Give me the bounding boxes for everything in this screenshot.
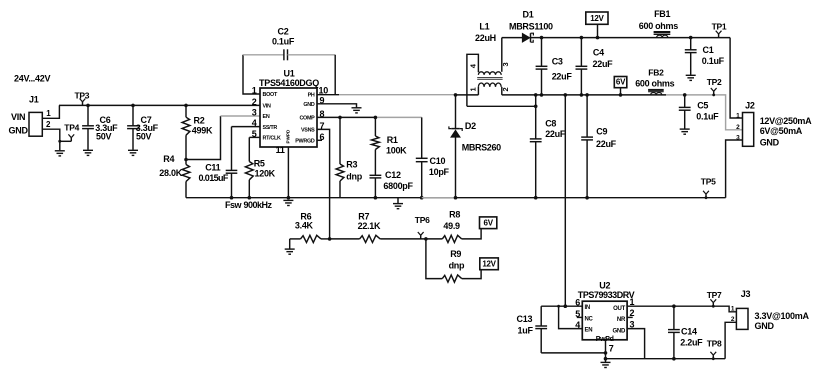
svg-text:R3: R3 <box>346 160 357 170</box>
svg-text:D1: D1 <box>523 10 534 20</box>
L1 pin label 3 <box>501 62 510 66</box>
U1 pin number 11 <box>276 145 285 155</box>
wire U2 EN tie <box>559 306 583 328</box>
svg-text:11: 11 <box>276 145 285 155</box>
diode D2 <box>449 95 501 198</box>
svg-text:D2: D2 <box>465 121 476 131</box>
svg-text:2: 2 <box>252 97 257 107</box>
capacitor C7 <box>127 105 159 149</box>
wire 12V to J2 pin1 <box>730 38 742 118</box>
svg-text:J1: J1 <box>29 95 39 105</box>
svg-text:PwPd: PwPd <box>596 336 614 343</box>
svg-text:FB2: FB2 <box>648 67 664 77</box>
svg-text:22.1K: 22.1K <box>358 221 381 231</box>
wire input 24V..42V label <box>14 74 50 84</box>
U1 pin name SS/TR <box>263 125 278 131</box>
node C3 top junction <box>540 36 544 40</box>
capacitor C12 <box>370 150 414 198</box>
U2 pin name GND <box>613 328 626 334</box>
svg-text:RT/CLK: RT/CLK <box>263 136 281 142</box>
ferrite bead FB2 <box>635 67 674 95</box>
node C8 pin4-line junction <box>534 105 538 109</box>
wire LDO ground rail <box>606 358 726 360</box>
resistor R7 <box>330 212 443 243</box>
resistor R8 <box>442 210 481 243</box>
U2 pin name NR <box>617 317 626 323</box>
svg-text:GND: GND <box>613 328 626 334</box>
J1 labels VIN GND <box>9 112 29 136</box>
svg-text:12V: 12V <box>482 260 496 269</box>
svg-text:24V...42V: 24V...42V <box>14 74 50 84</box>
svg-text:TPS79933DRV: TPS79933DRV <box>578 290 635 300</box>
svg-text:TPS54160DGQ: TPS54160DGQ <box>259 78 319 88</box>
wire input rail <box>59 104 260 106</box>
svg-text:0.015uF: 0.015uF <box>199 173 229 183</box>
svg-text:C11: C11 <box>205 162 220 172</box>
svg-text:22uH: 22uH <box>475 33 496 43</box>
wire PH black segment <box>456 94 479 96</box>
inductor L1 pin4 loop <box>467 54 479 106</box>
svg-text:J2: J2 <box>745 101 755 111</box>
power flag 6V feedback <box>480 217 497 229</box>
J3 labels <box>755 311 810 331</box>
svg-text:50V: 50V <box>96 131 111 141</box>
U2 refdes <box>578 281 635 300</box>
node D2 ground junction <box>454 196 458 200</box>
svg-text:dnp: dnp <box>346 172 362 182</box>
node C8 ground junction <box>534 196 538 200</box>
svg-text:TP7: TP7 <box>707 290 722 300</box>
svg-text:VSNS: VSNS <box>301 127 315 133</box>
svg-text:2: 2 <box>501 87 510 91</box>
wire J1 pin1 to input rail <box>42 105 59 118</box>
node U2 ground junction <box>604 357 608 361</box>
svg-text:900kHz: 900kHz <box>244 200 273 210</box>
resistor R5 <box>245 137 275 197</box>
node pin11 ground junction <box>287 196 291 200</box>
svg-text:22uF: 22uF <box>596 139 617 149</box>
U2 pin number 5 <box>575 309 580 319</box>
power flag 6V mid <box>614 77 627 97</box>
ground C1 <box>686 75 696 80</box>
U1 pin number 5 <box>252 129 257 139</box>
svg-text:BOOT: BOOT <box>263 92 278 98</box>
U1 pin number 10 <box>319 86 329 96</box>
ferrite bead FB1 <box>639 9 678 37</box>
svg-text:C13: C13 <box>517 314 533 324</box>
U1 pin name PH <box>308 93 315 99</box>
svg-text:TP5: TP5 <box>701 176 716 186</box>
U1 pin name PWRGD <box>295 138 315 144</box>
resistor R9 <box>426 239 481 282</box>
U1 pin name VSNS <box>301 127 315 133</box>
svg-text:GND: GND <box>760 137 780 147</box>
node C14 bottom junction <box>672 357 676 361</box>
svg-text:R2: R2 <box>194 115 205 125</box>
svg-text:50V: 50V <box>136 131 151 141</box>
node R2-R4-EN junction <box>184 158 188 162</box>
L1 pin label 2 <box>501 87 510 91</box>
svg-text:PWPD: PWPD <box>286 129 291 143</box>
U1 pin number 9 <box>320 95 325 105</box>
J2 pin 1 <box>736 112 740 119</box>
svg-text:COMP: COMP <box>299 115 315 121</box>
ground J1 <box>55 151 65 156</box>
node D2 PH junction <box>454 93 458 97</box>
inductor L1 core <box>477 78 502 80</box>
svg-text:GND: GND <box>9 126 29 136</box>
resistor R6 <box>290 212 330 243</box>
svg-text:100K: 100K <box>386 146 407 156</box>
node C5 top junction <box>683 93 687 97</box>
U1 pin number 7 <box>320 121 325 131</box>
svg-text:C10: C10 <box>430 156 446 166</box>
U2 pin number 1 <box>630 297 635 307</box>
wire J1 pin2 to ground <box>42 129 60 150</box>
capacitor C10 <box>416 117 450 197</box>
wire D1 anode lead <box>502 37 523 39</box>
node VSNS feedback junction <box>328 237 332 241</box>
wire J2 pin3 to ground rail <box>726 140 743 198</box>
connector J3 <box>736 289 750 329</box>
connector J1 <box>29 95 42 137</box>
svg-text:49.9: 49.9 <box>443 221 460 231</box>
svg-text:28.0K: 28.0K <box>159 168 182 178</box>
svg-text:IN: IN <box>585 305 590 311</box>
J2 pin 3 <box>736 135 740 142</box>
svg-text:C1: C1 <box>703 45 714 55</box>
svg-text:FB1: FB1 <box>654 9 670 19</box>
testpoint TP7 <box>707 290 722 308</box>
svg-text:C12: C12 <box>385 170 401 180</box>
resistor R1 <box>372 117 408 155</box>
wire PWRGD stub <box>317 139 322 141</box>
svg-text:Fsw: Fsw <box>225 200 243 210</box>
svg-text:C8: C8 <box>545 119 556 129</box>
svg-text:4: 4 <box>252 118 257 128</box>
svg-text:C2: C2 <box>278 26 289 36</box>
inductor L1 pin3 lead <box>501 38 503 72</box>
wire 6V rail gray segment <box>666 95 743 130</box>
node C8 top junction <box>534 93 538 97</box>
L1 pin label 1 <box>469 87 478 91</box>
U1 refdes <box>259 68 319 87</box>
capacitor C4 <box>576 38 614 95</box>
U2 pin number 7 <box>609 344 614 354</box>
wire U2 IN line <box>541 305 582 307</box>
U1 pin name RT/CLK <box>263 136 281 142</box>
svg-text:22uF: 22uF <box>545 129 566 139</box>
node U2 EN tie junction <box>557 305 560 308</box>
svg-text:499K: 499K <box>192 125 213 135</box>
ground U1 pin9 <box>352 108 362 113</box>
svg-text:EN: EN <box>263 114 270 120</box>
L1 pin label 4 <box>469 63 478 68</box>
svg-text:PWRGD: PWRGD <box>295 138 315 144</box>
label Fsw <box>225 200 273 210</box>
svg-text:6V: 6V <box>484 218 494 227</box>
power flag 12V top <box>586 12 608 39</box>
svg-text:SS/TR: SS/TR <box>263 125 278 131</box>
U1 pin number 6 <box>320 132 325 142</box>
svg-text:12V@250mA: 12V@250mA <box>760 116 812 126</box>
wire ground rail <box>186 197 726 199</box>
node C9 ground junction <box>585 196 589 200</box>
wire 6V rail <box>502 94 666 96</box>
J2 pin 2 <box>736 124 740 131</box>
testpoint TP1 <box>712 22 727 38</box>
testpoint TP4 <box>58 122 79 142</box>
U1 pin name VIN <box>263 103 272 109</box>
wire U2 NR stub <box>627 316 633 318</box>
J1 pin 1 <box>46 109 51 118</box>
testpoint TP8 <box>707 338 722 360</box>
node U2 IN junction <box>564 304 568 308</box>
svg-text:3: 3 <box>501 62 510 66</box>
node C6 junction <box>86 104 90 108</box>
node C4 bottom junction <box>580 93 584 97</box>
svg-text:TP3: TP3 <box>75 90 90 100</box>
node R3 top junction <box>338 116 342 120</box>
J2 labels <box>760 116 812 147</box>
svg-text:R7: R7 <box>358 212 369 222</box>
wire EN gray segment <box>221 115 261 117</box>
svg-text:120K: 120K <box>255 168 276 178</box>
wire OUT line <box>627 306 736 312</box>
capacitor C11 <box>199 127 261 198</box>
svg-text:10pF: 10pF <box>429 167 450 177</box>
J1 pin 2 <box>46 120 51 129</box>
svg-text:C9: C9 <box>596 126 607 136</box>
capacitor C6 <box>82 105 118 149</box>
svg-text:3.3V@100mA: 3.3V@100mA <box>755 311 810 321</box>
wire ground rail gray segment <box>422 197 456 199</box>
U2 pin name EN <box>585 328 593 334</box>
svg-text:6V@50mA: 6V@50mA <box>760 126 803 136</box>
svg-text:MBRS260: MBRS260 <box>462 142 501 152</box>
capacitor C5 <box>679 95 719 129</box>
testpoint TP2 <box>707 77 722 96</box>
inductor L1 pin1 lead <box>477 87 479 95</box>
wire U1 pin11 <box>287 147 289 198</box>
wire COMP <box>317 116 375 118</box>
ground C7 <box>128 150 138 155</box>
wire U2 pin7 <box>605 340 607 359</box>
svg-text:R1: R1 <box>387 135 398 145</box>
svg-text:L1: L1 <box>479 21 489 31</box>
svg-text:TP1: TP1 <box>712 22 727 32</box>
svg-text:R9: R9 <box>450 249 461 259</box>
svg-text:3.4K: 3.4K <box>295 221 314 231</box>
J3 pin 1 <box>731 305 735 312</box>
ground U1 pin11 <box>283 200 293 205</box>
op-amp U1 box <box>260 88 317 147</box>
wire VSNS <box>317 129 330 239</box>
node R5 ground junction <box>248 196 252 200</box>
U2 pin number 6 <box>575 298 580 308</box>
svg-text:22uF: 22uF <box>593 59 614 69</box>
node C11 ground junction <box>230 196 234 200</box>
U2 pin number 3 <box>630 319 635 329</box>
svg-text:TP4: TP4 <box>64 122 79 132</box>
node C14 top junction <box>672 304 676 308</box>
U2 pin number 2 <box>630 308 635 318</box>
node R2 junction <box>184 104 188 108</box>
svg-text:OUT: OUT <box>613 306 625 312</box>
svg-text:C3: C3 <box>552 57 563 67</box>
J3 pin 2 <box>731 316 735 323</box>
U1 pin name COMP <box>299 115 315 121</box>
svg-text:600 ohms: 600 ohms <box>635 79 674 89</box>
wire EN link <box>186 116 221 160</box>
svg-text:TP2: TP2 <box>707 77 722 87</box>
U2 pin name NC <box>585 316 594 322</box>
svg-text:2.2uF: 2.2uF <box>680 337 703 347</box>
wire PH stub <box>317 94 339 96</box>
L1 refdes <box>475 21 496 43</box>
node R1 top junction <box>374 116 378 120</box>
testpoint TP3 <box>75 90 90 105</box>
resistor R4 <box>159 154 190 198</box>
U2 pin name PwPd <box>596 336 614 343</box>
svg-text:1uF: 1uF <box>518 326 534 336</box>
wire U2 NC stub <box>577 316 583 318</box>
U1 pin name GND <box>303 102 315 108</box>
node C9 top junction <box>585 93 589 97</box>
svg-text:600 ohms: 600 ohms <box>639 21 678 31</box>
svg-text:VIN: VIN <box>11 112 25 122</box>
connector J2 <box>743 101 755 147</box>
svg-text:TP8: TP8 <box>707 338 722 348</box>
U1 pin number 3 <box>252 108 257 118</box>
inductor L1 pin2 lead <box>501 87 503 95</box>
svg-text:C5: C5 <box>697 101 708 111</box>
U1 pin name BOOT <box>263 92 278 98</box>
node pin7 link junction <box>604 351 608 355</box>
wire C13 bottom link <box>541 352 605 354</box>
node U2 feed junction <box>564 93 568 97</box>
ground C5 <box>680 129 690 134</box>
svg-text:0.1uF: 0.1uF <box>702 56 725 66</box>
node C1 top junction <box>689 36 693 40</box>
wire C2 right vertical <box>334 55 336 95</box>
capacitor C13 <box>517 306 548 353</box>
svg-text:MBRS1100: MBRS1100 <box>509 22 553 32</box>
svg-text:TP6: TP6 <box>415 215 430 225</box>
svg-text:12V: 12V <box>590 14 604 23</box>
capacitor C1 <box>685 38 725 75</box>
diode D1 <box>509 10 553 43</box>
capacitor C2 <box>243 26 335 60</box>
svg-text:R5: R5 <box>254 159 265 169</box>
U1 pin number 4 <box>252 118 257 128</box>
svg-text:C14: C14 <box>681 327 697 337</box>
wire L1 pin4 line to C8 <box>467 105 536 107</box>
U2 pin number 4 <box>575 320 580 330</box>
svg-text:3: 3 <box>252 108 257 118</box>
wire 12V rail <box>531 37 731 39</box>
U1 pin name PWPD vertical <box>286 129 291 143</box>
svg-text:22uF: 22uF <box>552 72 573 82</box>
testpoint TP5 <box>701 176 716 199</box>
node C7 junction <box>131 104 135 108</box>
capacitor C9 <box>581 95 616 198</box>
svg-text:dnp: dnp <box>449 260 465 270</box>
svg-text:6V: 6V <box>616 78 626 87</box>
svg-text:NC: NC <box>585 316 594 322</box>
U1 pin number 1 <box>252 86 257 96</box>
svg-text:6800pF: 6800pF <box>383 181 413 191</box>
svg-text:NR: NR <box>617 317 626 323</box>
capacitor C14 <box>668 306 703 359</box>
node R9 branch junction <box>424 237 428 241</box>
U1 pin number 8 <box>320 109 325 119</box>
svg-text:0.1uF: 0.1uF <box>696 112 719 122</box>
svg-text:VIN: VIN <box>263 103 272 109</box>
svg-text:J3: J3 <box>741 289 751 299</box>
op-amp U2 box <box>582 301 627 340</box>
U2 pin name OUT <box>613 306 625 312</box>
svg-text:R8: R8 <box>449 210 460 220</box>
ground C6 <box>83 150 93 155</box>
resistor R2 <box>182 105 213 159</box>
wire J3 pin2 to ground <box>725 322 736 358</box>
U1 pin name EN <box>263 114 270 120</box>
U1 pin number 2 <box>252 97 257 107</box>
node C4 top junction <box>580 36 584 40</box>
node C12 ground junction <box>374 196 378 200</box>
wire COMP gray segment <box>375 116 421 118</box>
wire PH gray rail <box>339 94 456 96</box>
svg-text:GND: GND <box>755 321 775 331</box>
svg-text:GND: GND <box>303 102 315 108</box>
svg-text:0.1uF: 0.1uF <box>272 37 295 47</box>
capacitor C8 <box>530 95 566 198</box>
wire U2 feed vertical <box>564 95 566 306</box>
node C10 ground junction <box>420 196 424 200</box>
ground U2 <box>601 359 611 368</box>
node C3 bottom junction <box>540 93 544 97</box>
svg-text:EN: EN <box>585 328 593 334</box>
svg-text:C4: C4 <box>593 47 604 57</box>
capacitor C3 <box>536 38 573 95</box>
U2 pin name IN <box>585 305 590 311</box>
svg-text:PH: PH <box>308 93 315 99</box>
wire U2 GND pin3 <box>627 329 645 359</box>
testpoint TP6 <box>415 215 430 239</box>
wire BOOT to C2 <box>243 55 260 94</box>
power flag 12V feedback <box>480 258 499 270</box>
inductor L1 windings <box>478 72 501 87</box>
svg-text:R4: R4 <box>163 154 174 164</box>
ground R6 <box>285 239 295 254</box>
ground rail middle <box>393 198 403 209</box>
svg-text:7: 7 <box>609 344 614 354</box>
wire U1 GND pin9 <box>317 104 357 108</box>
svg-text:1: 1 <box>469 87 478 91</box>
resistor R3 <box>336 117 363 197</box>
svg-text:5: 5 <box>252 129 257 139</box>
